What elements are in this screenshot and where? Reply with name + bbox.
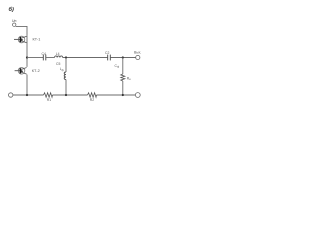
terminal bottom left xyxy=(9,93,13,97)
svg-text:Сф: Сф xyxy=(115,64,120,69)
wire right branch upper xyxy=(122,58,124,75)
resistor R1 zigzag xyxy=(44,93,53,97)
svg-text:б): б) xyxy=(9,6,14,13)
wire bottom rail segment 2 xyxy=(53,94,88,96)
node junction drain/mid xyxy=(26,56,28,58)
svg-text:Rн: Rн xyxy=(127,76,131,81)
svg-text:КТ-2: КТ-2 xyxy=(32,69,40,73)
wire middle branch lower xyxy=(65,80,67,96)
wire to junction xyxy=(63,57,108,59)
wire mid rail left xyxy=(27,57,43,59)
wire bottom rail segment 3 xyxy=(97,94,136,96)
svg-text:С4: С4 xyxy=(42,52,46,56)
inductor L1 xyxy=(55,56,63,58)
resistor Rn vertical zigzag xyxy=(121,74,125,81)
terminal bottom right xyxy=(135,93,140,98)
node junction middle xyxy=(65,56,67,58)
node junction right xyxy=(122,56,124,58)
resistor R2 zigzag xyxy=(88,93,97,97)
wire emitter to bottom rail xyxy=(26,75,28,96)
node junction emitter/rail xyxy=(26,94,28,96)
wire right branch lower xyxy=(122,81,124,95)
wire top lead xyxy=(16,26,27,35)
svg-text:Uп: Uп xyxy=(12,19,17,23)
svg-text:Вых.: Вых. xyxy=(134,51,141,55)
wire middle branch upper xyxy=(65,58,67,73)
wire mid rail right xyxy=(111,57,136,59)
node junction middle/rail xyxy=(65,94,67,96)
svg-text:С2: С2 xyxy=(105,51,109,55)
node junction right/rail xyxy=(122,94,124,96)
svg-text:КТ-1: КТ-1 xyxy=(33,37,41,41)
wire between transistors xyxy=(26,36,28,67)
transistor KT-2 xyxy=(15,68,27,75)
wire bottom rail segment 1 xyxy=(13,94,44,96)
svg-text:Lф: Lф xyxy=(60,67,65,72)
terminal output (right) xyxy=(136,55,140,59)
capacitor C2 xyxy=(108,55,111,61)
capacitor C1 xyxy=(43,55,46,61)
wire xyxy=(46,57,55,59)
svg-text:С5: С5 xyxy=(56,62,60,66)
svg-text:R2: R2 xyxy=(90,98,94,102)
inductor L2 vertical xyxy=(64,72,66,80)
transistor KT-1 xyxy=(14,36,27,43)
svg-text:R1: R1 xyxy=(47,98,51,102)
terminal input (top left) xyxy=(13,23,16,26)
svg-text:L4: L4 xyxy=(56,52,60,56)
